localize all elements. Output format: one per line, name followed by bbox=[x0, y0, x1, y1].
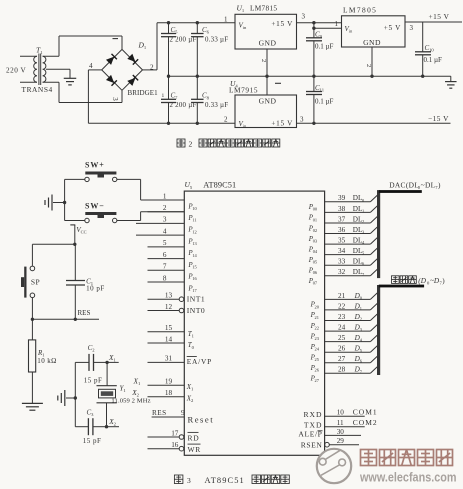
pin 25 P24 D4 bbox=[310, 334, 378, 352]
pin 34 P05 DL5 bbox=[308, 247, 378, 265]
svg-text:COM2: COM2 bbox=[353, 418, 378, 427]
svg-text:7: 7 bbox=[163, 263, 167, 271]
svg-text:2: 2 bbox=[360, 317, 362, 322]
svg-text:15 pF: 15 pF bbox=[84, 377, 103, 385]
pin 8 P17 bbox=[148, 274, 198, 293]
switch SP bbox=[21, 266, 40, 298]
label -15 V output bbox=[428, 114, 449, 123]
svg-text:RXD: RXD bbox=[303, 410, 322, 419]
svg-text:GND: GND bbox=[259, 97, 277, 106]
svg-text:GND: GND bbox=[363, 38, 381, 47]
pin 3 of U4 bbox=[297, 115, 451, 123]
svg-text:LM7815: LM7815 bbox=[250, 4, 277, 13]
pin 30 ALE/P bbox=[298, 428, 361, 439]
svg-text:TXD: TXD bbox=[304, 421, 323, 430]
svg-text:1: 1 bbox=[242, 8, 245, 13]
ground (switch common) bbox=[45, 195, 66, 211]
pin 23 P22 D2 bbox=[310, 313, 378, 331]
pin 15 T1 bbox=[148, 324, 195, 339]
capacitor C7 2200uF bbox=[161, 76, 197, 125]
wire SW- to pin 2 bbox=[65, 203, 185, 221]
capacitor C2 15pF bbox=[75, 344, 107, 385]
svg-text:5: 5 bbox=[163, 239, 167, 247]
svg-text:3: 3 bbox=[300, 115, 304, 123]
pin 31 EA/VP bbox=[148, 355, 213, 366]
svg-text:1: 1 bbox=[192, 334, 195, 339]
svg-text:1: 1 bbox=[362, 208, 364, 213]
svg-text:10: 10 bbox=[337, 409, 345, 417]
pin 1 of U1 bbox=[224, 15, 228, 23]
pin 14 T0 bbox=[148, 335, 195, 350]
wire AC2 (secondary bottom to bridge pin 3) bbox=[59, 82, 122, 102]
capacitor C11 0.1uF bbox=[306, 76, 334, 125]
svg-text:19: 19 bbox=[165, 378, 173, 386]
pin 35 P04 DL4 bbox=[308, 237, 378, 255]
svg-text:32: 32 bbox=[338, 268, 346, 276]
svg-text:www.elecfans.com: www.elecfans.com bbox=[359, 471, 456, 485]
watermark logo bbox=[317, 449, 351, 483]
capacitor C6 0.33uF bbox=[191, 21, 228, 76]
svg-text:36: 36 bbox=[338, 226, 346, 234]
pin 36 P03 DL3 bbox=[308, 226, 378, 244]
pin 16 WR bbox=[148, 441, 201, 454]
svg-text:0.1 µF: 0.1 µF bbox=[315, 97, 334, 105]
caption figure 3 bbox=[174, 475, 289, 485]
svg-text:21: 21 bbox=[315, 315, 319, 320]
svg-text:27: 27 bbox=[338, 355, 346, 363]
label +15 V output bbox=[429, 12, 450, 21]
svg-text:02: 02 bbox=[313, 228, 317, 233]
svg-text:(D: (D bbox=[418, 277, 426, 285]
svg-text:5: 5 bbox=[190, 185, 193, 190]
svg-text:2 200 µF: 2 200 µF bbox=[170, 102, 197, 109]
caption figure 2 bbox=[177, 139, 280, 148]
ground (below R1) bbox=[22, 403, 43, 410]
wire SP to RES node bbox=[31, 298, 34, 321]
node RES (reset net) bbox=[32, 309, 99, 320]
pin 4 P13 bbox=[136, 227, 198, 246]
svg-text:GND: GND bbox=[259, 39, 277, 48]
svg-text:SW+: SW+ bbox=[85, 161, 105, 170]
svg-text:03: 03 bbox=[313, 238, 318, 243]
wire +15V rail into LM7805 bbox=[312, 21, 341, 30]
svg-text:24: 24 bbox=[315, 347, 320, 352]
bridge pin 2 bbox=[150, 63, 154, 71]
pin 3 of LM7805 bbox=[405, 22, 462, 32]
switch SW+ bbox=[85, 161, 117, 182]
pin 39 P00 DL0 bbox=[308, 194, 378, 212]
svg-text:10: 10 bbox=[192, 206, 197, 211]
pin 1 of LM7805 bbox=[335, 20, 339, 28]
pin 24 P23 D3 bbox=[310, 324, 378, 342]
node X2 (crystal bottom) bbox=[105, 417, 119, 428]
pin 19 X1 bbox=[133, 377, 194, 392]
svg-text:3: 3 bbox=[410, 24, 414, 32]
capacitor C5 2200uF bbox=[161, 21, 197, 76]
pin 29 RSEN bbox=[301, 437, 359, 449]
svg-text:25: 25 bbox=[338, 334, 346, 342]
pin 38 P01 DL1 bbox=[308, 205, 378, 223]
crystal Y1 11.0592 MHz bbox=[97, 362, 151, 426]
pin 9 RES Reset bbox=[152, 409, 214, 424]
svg-text:13: 13 bbox=[192, 241, 197, 246]
pin 7 P16 bbox=[148, 263, 198, 282]
capacitor C3 15pF bbox=[75, 408, 106, 445]
node X1 (crystal top) bbox=[105, 353, 118, 364]
bridge pin 4 bbox=[89, 62, 93, 70]
svg-text:1: 1 bbox=[40, 50, 43, 55]
svg-text:1: 1 bbox=[138, 381, 141, 386]
svg-text:LM7915: LM7915 bbox=[229, 86, 258, 95]
svg-text:1: 1 bbox=[360, 306, 362, 311]
pin 12 INT0 bbox=[148, 303, 206, 315]
svg-text:11: 11 bbox=[337, 419, 344, 427]
svg-text:SP: SP bbox=[31, 278, 40, 287]
pin 11 COM2 TXD bbox=[304, 418, 378, 429]
bridge rectifier D1 BRIDGE1 bbox=[102, 41, 158, 98]
svg-text:11: 11 bbox=[320, 88, 325, 93]
svg-text:6: 6 bbox=[163, 251, 167, 259]
svg-text:17: 17 bbox=[192, 288, 197, 293]
svg-text:38: 38 bbox=[338, 205, 346, 213]
svg-text:3: 3 bbox=[302, 13, 306, 21]
svg-text:10: 10 bbox=[429, 48, 434, 53]
wire Vcc to SP bbox=[32, 244, 74, 266]
svg-text:2: 2 bbox=[114, 422, 117, 427]
svg-text:+15 V: +15 V bbox=[271, 120, 293, 128]
svg-text:220 V: 220 V bbox=[6, 67, 26, 75]
svg-text:RES: RES bbox=[78, 309, 91, 317]
svg-text:): ) bbox=[438, 180, 441, 189]
svg-text:01: 01 bbox=[313, 217, 317, 222]
ground (crystal caps) bbox=[58, 390, 76, 406]
svg-text:3: 3 bbox=[111, 97, 119, 101]
svg-text:AT89C51: AT89C51 bbox=[205, 476, 245, 485]
svg-text:AT89C51: AT89C51 bbox=[203, 180, 236, 189]
pin 2 P11 bbox=[148, 204, 197, 223]
svg-text:2: 2 bbox=[260, 59, 267, 62]
svg-text:1: 1 bbox=[123, 388, 126, 393]
svg-text:12: 12 bbox=[165, 303, 173, 311]
svg-text:LM7805: LM7805 bbox=[343, 6, 377, 15]
svg-text:1: 1 bbox=[163, 192, 167, 200]
regulator LM7805 bbox=[342, 6, 406, 47]
svg-text:25: 25 bbox=[315, 357, 320, 362]
svg-text:): ) bbox=[442, 277, 445, 285]
pin 3 P12 bbox=[136, 216, 197, 235]
pin 5 P14 bbox=[148, 239, 198, 258]
bus DAC(DL0-DL7) bbox=[377, 180, 441, 278]
svg-text:05: 05 bbox=[313, 260, 318, 265]
svg-text:26: 26 bbox=[315, 368, 320, 373]
pin 6 P15 bbox=[148, 251, 198, 270]
pin 26 P25 D5 bbox=[310, 345, 378, 363]
wire -V unregulated (bridge pin 4 to LM7915 Vin) bbox=[88, 70, 235, 123]
label TRANS4 bbox=[22, 85, 53, 94]
ground (transformer center tap) bbox=[64, 69, 77, 85]
pin 13 INT1 bbox=[148, 292, 206, 304]
svg-text:COM1: COM1 bbox=[353, 408, 378, 417]
svg-text:14: 14 bbox=[192, 253, 197, 258]
svg-text:CC: CC bbox=[81, 229, 87, 234]
svg-text:4: 4 bbox=[89, 62, 93, 70]
svg-text:13: 13 bbox=[165, 292, 173, 300]
resistor R1 10k bbox=[29, 319, 57, 403]
pin 2 of LM7805 (GND) bbox=[365, 47, 372, 76]
svg-text:3: 3 bbox=[187, 476, 191, 485]
svg-text:00: 00 bbox=[313, 207, 318, 212]
svg-text:15: 15 bbox=[192, 265, 197, 270]
svg-text:17: 17 bbox=[171, 429, 179, 437]
svg-text:in: in bbox=[243, 25, 247, 30]
svg-text:21: 21 bbox=[338, 292, 346, 300]
svg-text:37: 37 bbox=[338, 215, 346, 223]
svg-text:+15 V: +15 V bbox=[271, 20, 293, 28]
svg-text:06: 06 bbox=[313, 270, 318, 275]
capacitor C9 0.1uF bbox=[306, 23, 334, 78]
bridge pin 3 bbox=[111, 97, 119, 101]
svg-text:1: 1 bbox=[144, 45, 147, 50]
bus shumaguan(D0-D7) bbox=[377, 276, 445, 375]
svg-text:TRANS4: TRANS4 bbox=[22, 85, 53, 94]
svg-text:2: 2 bbox=[163, 204, 167, 212]
wire GND rail bbox=[167, 75, 451, 78]
svg-text:1: 1 bbox=[162, 93, 165, 99]
svg-text:2: 2 bbox=[189, 139, 193, 148]
svg-text:EA/VP: EA/VP bbox=[187, 357, 212, 366]
svg-text:23: 23 bbox=[315, 336, 320, 341]
svg-text:10 kΩ: 10 kΩ bbox=[37, 357, 56, 365]
svg-text:16: 16 bbox=[171, 441, 179, 449]
svg-text:04: 04 bbox=[313, 249, 318, 254]
svg-text:WR: WR bbox=[188, 445, 201, 454]
svg-text:2: 2 bbox=[362, 219, 364, 224]
svg-text:12: 12 bbox=[192, 229, 196, 234]
svg-text:7: 7 bbox=[175, 95, 178, 100]
svg-text:8: 8 bbox=[163, 274, 167, 282]
label 220 V bbox=[6, 67, 26, 75]
svg-text:34: 34 bbox=[338, 247, 346, 255]
svg-text:3: 3 bbox=[163, 216, 167, 224]
svg-text:INT0: INT0 bbox=[187, 306, 205, 315]
svg-text:20: 20 bbox=[315, 304, 320, 309]
svg-text:1: 1 bbox=[113, 358, 116, 363]
svg-text:0.33 µF: 0.33 µF bbox=[205, 102, 228, 109]
svg-text:15 pF: 15 pF bbox=[83, 437, 102, 445]
svg-text:16: 16 bbox=[192, 276, 197, 281]
svg-text:31: 31 bbox=[165, 355, 173, 363]
wire +V unregulated (bridge pin 2 to LM7815 Vin) bbox=[143, 23, 236, 70]
svg-text:07: 07 bbox=[313, 281, 318, 286]
svg-text:0.1 µF: 0.1 µF bbox=[424, 56, 443, 64]
pin 10 COM1 RXD bbox=[303, 408, 377, 419]
svg-text:0.1 µF: 0.1 µF bbox=[315, 43, 334, 51]
svg-text:23: 23 bbox=[338, 313, 346, 321]
switch SW- bbox=[85, 202, 117, 223]
wire AC1 (secondary top to bridge pin 1) bbox=[59, 36, 122, 56]
ground (earth, right end of GND rail) bbox=[445, 76, 457, 88]
svg-text:+15 V: +15 V bbox=[429, 12, 450, 21]
pin 2 of U1 (GND) bbox=[260, 49, 267, 76]
svg-text:RD: RD bbox=[188, 433, 200, 442]
svg-text:0: 0 bbox=[192, 345, 195, 350]
svg-text:1: 1 bbox=[191, 387, 194, 392]
svg-text:+5 V: +5 V bbox=[384, 24, 401, 32]
svg-text:22: 22 bbox=[315, 325, 319, 330]
svg-text:in: in bbox=[349, 29, 353, 34]
svg-text:RES: RES bbox=[152, 409, 167, 417]
pin 17 RD bbox=[148, 429, 200, 442]
svg-text:RSEN: RSEN bbox=[301, 440, 323, 449]
transformer T1 bbox=[20, 46, 70, 86]
svg-text:10 pF: 10 pF bbox=[86, 285, 105, 293]
pin 1 of U4 (GND) bbox=[267, 76, 281, 95]
svg-text:27: 27 bbox=[315, 378, 320, 383]
svg-text:2: 2 bbox=[365, 64, 372, 67]
capacitor C10 0.1uF bbox=[415, 22, 442, 78]
svg-text:9: 9 bbox=[320, 34, 323, 39]
svg-text:3: 3 bbox=[91, 412, 94, 417]
bridge pin 1 bbox=[113, 38, 119, 40]
svg-text:11.059 2 MHz: 11.059 2 MHz bbox=[111, 397, 150, 404]
svg-text:24: 24 bbox=[338, 324, 346, 332]
svg-text:~D: ~D bbox=[430, 277, 440, 285]
svg-text:Reset: Reset bbox=[188, 414, 215, 424]
wire SW+ to pin 1 bbox=[65, 179, 185, 202]
pin 37 P02 DL2 bbox=[308, 215, 378, 233]
svg-text:11: 11 bbox=[192, 218, 196, 223]
node Vcc bbox=[70, 225, 86, 246]
svg-text:8: 8 bbox=[207, 95, 210, 100]
capacitor C1 10pF bbox=[66, 244, 105, 321]
pin 28 P27 D7 bbox=[310, 366, 378, 384]
pin 2 of U4 bbox=[224, 115, 228, 123]
svg-text:INT1: INT1 bbox=[187, 295, 205, 304]
svg-text:1: 1 bbox=[335, 20, 339, 28]
svg-text:DAC(DL: DAC(DL bbox=[389, 180, 419, 189]
svg-text:29: 29 bbox=[337, 437, 345, 445]
pin 21 P20 D0 bbox=[310, 292, 378, 310]
capacitor C8 0.33uF bbox=[191, 76, 228, 125]
regulator U1 LM7815 bbox=[235, 4, 297, 50]
svg-text:28: 28 bbox=[338, 366, 346, 374]
svg-text:14: 14 bbox=[165, 335, 173, 343]
svg-text:4: 4 bbox=[163, 227, 167, 235]
svg-text:33: 33 bbox=[338, 258, 346, 266]
pin 1 P10 bbox=[148, 192, 198, 211]
watermark text www.elecfans.com bbox=[359, 471, 456, 485]
svg-text:BRIDGE1: BRIDGE1 bbox=[128, 89, 159, 97]
svg-text:1: 1 bbox=[224, 15, 228, 23]
watermark text dianzifashaoyou bbox=[361, 450, 453, 466]
pin 27 P26 D6 bbox=[310, 355, 378, 373]
svg-text:18: 18 bbox=[165, 389, 173, 397]
pin 32 P07 DL7 bbox=[308, 268, 378, 286]
svg-text:~DL: ~DL bbox=[421, 180, 436, 189]
svg-text:22: 22 bbox=[338, 302, 346, 310]
svg-text:5: 5 bbox=[175, 30, 178, 35]
svg-text:2: 2 bbox=[92, 348, 95, 353]
svg-text:−15 V: −15 V bbox=[428, 114, 449, 123]
pin 18 X2 bbox=[131, 388, 194, 403]
svg-text:9: 9 bbox=[181, 409, 185, 417]
svg-text:0.33 µF: 0.33 µF bbox=[205, 36, 228, 43]
pin 3 of U1 bbox=[297, 13, 314, 23]
svg-text:35: 35 bbox=[338, 237, 346, 245]
svg-text:2: 2 bbox=[191, 398, 194, 403]
svg-text:26: 26 bbox=[338, 345, 346, 353]
wire crystal caps common bbox=[74, 362, 77, 426]
svg-text:2: 2 bbox=[224, 115, 228, 123]
svg-text:SW−: SW− bbox=[85, 202, 105, 211]
MCU U5 AT89C51 bbox=[184, 180, 324, 455]
svg-text:39: 39 bbox=[338, 194, 346, 202]
pin 22 P21 D1 bbox=[310, 302, 378, 320]
regulator U4 LM7915 bbox=[229, 79, 297, 129]
svg-text:30: 30 bbox=[337, 428, 345, 436]
pin 33 P06 DL6 bbox=[308, 258, 378, 276]
svg-text:6: 6 bbox=[207, 29, 210, 34]
svg-text:15: 15 bbox=[165, 324, 173, 332]
